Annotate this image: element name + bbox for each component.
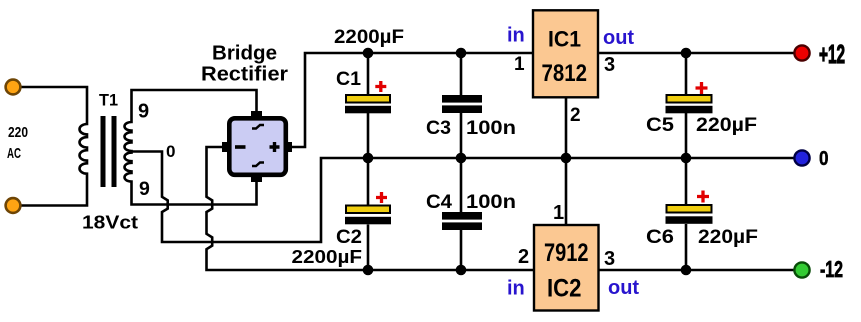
capacitor C1 plus (375, 81, 386, 92)
svg-text:3: 3 (604, 248, 615, 270)
label 18Vct (82, 213, 138, 233)
svg-text:+12: +12 (819, 39, 845, 69)
svg-text:2200µF: 2200µF (334, 27, 404, 48)
capacitor C2 plates (345, 206, 391, 225)
svg-text:2: 2 (518, 246, 529, 268)
wire C4 leads (460, 158, 463, 270)
label AC (7, 145, 21, 162)
svg-text:out: out (603, 27, 634, 49)
svg-text:C5: C5 (646, 115, 674, 136)
label C3 value (466, 118, 516, 139)
svg-text:Rectifier: Rectifier (201, 64, 288, 86)
label C6 (646, 227, 674, 248)
svg-text:C3: C3 (426, 118, 451, 139)
svg-text:Bridge: Bridge (212, 43, 277, 65)
svg-text:2: 2 (570, 105, 581, 126)
label IC2 out (608, 277, 639, 299)
label C5 value (696, 115, 757, 136)
junction dots 0 rail (363, 153, 692, 164)
terminal AC top (6, 80, 21, 95)
svg-text:IC1: IC1 (548, 27, 581, 52)
wire IC2 pin1 up to 0 rail (565, 158, 568, 225)
label C6 value (698, 227, 758, 248)
label IC2 pin1 (553, 202, 564, 224)
svg-text:in: in (507, 25, 525, 47)
terminal 0 (794, 150, 809, 165)
svg-text:220µF: 220µF (696, 115, 757, 136)
label 220 (8, 124, 28, 141)
label T1 (99, 91, 118, 110)
label IC2 in (507, 278, 525, 300)
wire bridge plus to +12 rail (288, 53, 794, 147)
label C4 (426, 192, 452, 213)
svg-text:7812: 7812 (542, 60, 588, 87)
svg-text:IC2: IC2 (547, 275, 582, 303)
capacitor C4 plates (442, 212, 482, 230)
label 2200uF bottom (292, 247, 363, 267)
capacitor C5 plus (696, 82, 708, 94)
wire C6 leads (685, 158, 688, 270)
label 9 bottom (139, 178, 150, 200)
junction dots top rail (363, 48, 692, 59)
svg-text:220: 220 (8, 124, 28, 141)
label -12 output (820, 256, 843, 282)
wire primary loop (20, 87, 87, 206)
label +12 (819, 39, 845, 69)
svg-text:1: 1 (514, 54, 525, 75)
label 9 top (138, 101, 149, 123)
label IC1 (548, 27, 581, 52)
svg-text:220µF: 220µF (698, 227, 758, 248)
IC1 7812 box (533, 10, 598, 97)
svg-text:C1: C1 (336, 69, 361, 90)
svg-text:C2: C2 (336, 227, 362, 248)
label IC1 pin2 (570, 105, 581, 126)
label 2200uF top (334, 27, 404, 48)
wire center tap to 0 rail (132, 152, 795, 243)
wire C2 leads (367, 158, 370, 270)
label IC1 out (603, 27, 634, 49)
terminal AC bottom (6, 198, 21, 213)
wire C5 leads (685, 53, 688, 158)
label IC2 (547, 275, 582, 303)
svg-text:2200µF: 2200µF (292, 247, 363, 267)
svg-text:100n: 100n (466, 118, 516, 139)
capacitor C6 plates (666, 205, 713, 224)
label Rectifier (201, 64, 288, 86)
capacitor C6 plus (697, 191, 709, 203)
wire bridge minus to -12 rail (207, 147, 795, 270)
svg-text:1: 1 (553, 202, 564, 224)
svg-text:7912: 7912 (544, 239, 589, 267)
svg-text:9: 9 (138, 101, 149, 123)
label IC1 in (507, 25, 525, 47)
svg-text:0: 0 (819, 147, 829, 170)
label C2 (336, 227, 362, 248)
label C5 (646, 115, 674, 136)
label 7912 (544, 239, 589, 267)
svg-text:out: out (608, 277, 639, 299)
svg-text:C6: C6 (646, 227, 674, 248)
label 0 output (819, 147, 829, 170)
svg-text:18Vct: 18Vct (82, 213, 138, 233)
transformer T1 core (101, 116, 117, 187)
terminal -12 (794, 262, 809, 277)
junction dots -12 rail (363, 265, 692, 276)
svg-text:100n: 100n (466, 192, 516, 213)
label C1 (336, 69, 361, 90)
svg-text:in: in (507, 278, 525, 300)
capacitor C2 plus (376, 192, 387, 203)
wire IC1 pin2 down to 0 rail (565, 97, 568, 158)
svg-text:T1: T1 (99, 91, 118, 110)
capacitor C1 plates (345, 95, 391, 113)
capacitor C3 plates (442, 95, 482, 113)
label 7812 (542, 60, 588, 87)
svg-text:C4: C4 (426, 192, 452, 213)
svg-text:9: 9 (139, 178, 150, 200)
wire C1 leads (367, 53, 370, 158)
capacitor C5 plates (666, 95, 713, 113)
label 0 center tap (166, 142, 175, 161)
bridge rectifier block (222, 111, 292, 182)
label IC1 pin1 (514, 54, 525, 75)
wire C3 leads (460, 53, 463, 158)
svg-text:0: 0 (166, 142, 175, 161)
label IC2 pin3 (604, 248, 615, 270)
svg-text:3: 3 (604, 54, 615, 76)
svg-text:AC: AC (7, 145, 21, 162)
label C4 value (466, 192, 516, 213)
terminal +12 (794, 45, 809, 60)
wire secondary winding with bridge AC leads (125, 90, 257, 205)
svg-text:-12: -12 (820, 256, 843, 282)
IC2 7912 box (534, 225, 599, 311)
label C3 (426, 118, 451, 139)
label IC2 pin2 (518, 246, 529, 268)
label Bridge (212, 43, 277, 65)
label IC1 pin3 (604, 54, 615, 76)
